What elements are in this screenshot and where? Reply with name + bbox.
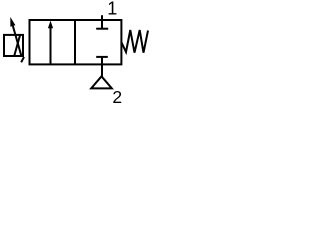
flow path arrow shaft (left cell) [50,27,52,65]
valve position divider [74,20,76,64]
manual override tail [21,57,24,62]
solenoid diagonal [14,35,20,56]
blocked port T-bar bottom [96,56,108,58]
flow arrowhead [48,21,53,29]
svg-text:2: 2 [112,87,122,107]
valve body box [30,20,122,64]
port 2 stub [101,57,103,77]
blocked port T-bar top [96,28,108,30]
svg-text:1: 1 [107,0,117,19]
proportional arrow shaft [13,26,22,56]
exhaust triangle [91,76,112,88]
proportional arrowhead [10,17,15,27]
solenoid box [4,35,23,56]
port 1 line [101,15,103,29]
spring [121,30,148,53]
